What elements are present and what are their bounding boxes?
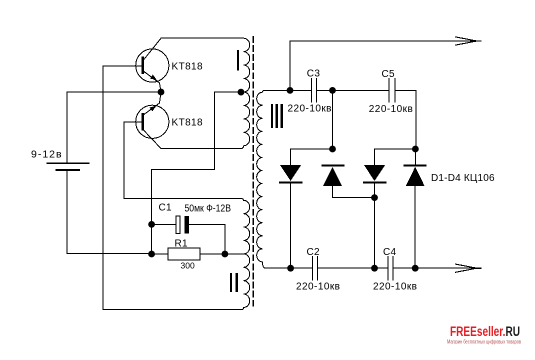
diode D4 КЦ106	[405, 149, 426, 268]
watermark FREEseller.RU logo	[447, 324, 521, 346]
svg-text:220-10кв: 220-10кв	[369, 104, 413, 115]
node A junction D1 anode / D2 cathode	[329, 146, 336, 153]
node R1 right / C1 right / winding II tap junction	[222, 251, 229, 258]
svg-text:C1: C1	[159, 203, 173, 214]
diode D2 КЦ106	[322, 165, 374, 197]
svg-text:FREEseller.RU: FREEseller.RU	[450, 324, 520, 339]
capacitor C2 220-10кв	[313, 257, 388, 281]
wire node B to D3	[375, 149, 416, 165]
svg-text:D1-D4 КЦ106: D1-D4 КЦ106	[431, 173, 495, 184]
transistor Q1 KT818	[136, 38, 169, 91]
terminal top output arrow	[456, 37, 482, 45]
capacitor C3 220-10кв	[290, 79, 332, 103]
svg-text:220-10кв: 220-10кв	[288, 104, 332, 115]
wire top output rail	[290, 41, 477, 90]
svg-text:C4: C4	[383, 247, 397, 258]
node C1 left junction	[148, 221, 155, 228]
svg-text:R1: R1	[175, 238, 189, 249]
node B junction D3 anode / D4 cathode	[412, 146, 419, 153]
svg-text:Магазин бесплатных цифровых то: Магазин бесплатных цифровых товаров	[447, 339, 521, 345]
capacitor C4 220-10кв	[388, 257, 477, 281]
node D2 anode / D3 cathode junction	[371, 194, 378, 201]
svg-text:C2: C2	[307, 247, 321, 258]
node D3 line on bottom rail	[371, 265, 378, 272]
node R1 left junction	[148, 251, 155, 258]
svg-text:50мк Ф-12В: 50мк Ф-12В	[185, 203, 232, 214]
node emitter junction	[158, 89, 165, 96]
svg-text:9-12в: 9-12в	[31, 148, 63, 160]
svg-text:220-10кв: 220-10кв	[296, 282, 340, 293]
transformer T1 winding III (HV secondary) with top lead	[257, 90, 312, 268]
capacitor C1 50мк Ф-12В	[152, 216, 226, 254]
svg-text:300: 300	[181, 260, 195, 270]
diode D3 КЦ106	[364, 165, 385, 268]
node C3 right junction	[329, 87, 336, 94]
node winding I tap junction	[238, 89, 245, 96]
wire battery negative to R1 left node	[67, 171, 151, 254]
wire Q1 base wire	[103, 65, 141, 67]
svg-text:KT818: KT818	[172, 117, 204, 128]
transformer T1 core	[252, 37, 254, 306]
battery GB1 9-12в	[47, 163, 89, 170]
label winding numeral II	[230, 273, 238, 292]
wire emitter node to battery positive	[67, 92, 161, 163]
svg-text:C3: C3	[307, 69, 321, 80]
transformer T1 winding II (bottom primary) with feedback wires	[103, 66, 250, 310]
svg-text:KT818: KT818	[172, 62, 204, 73]
node D1 cathode on bottom rail	[287, 265, 294, 272]
wire winding I center tap to C1/R1 branch	[152, 92, 244, 254]
wire Q2 base wire	[124, 121, 141, 123]
transformer T1 winding I (top primary) with collector rail	[161, 38, 250, 148]
wire node A from C3	[332, 90, 334, 149]
node secondary top / C3 left junction	[287, 87, 294, 94]
transistor Q2 KT818	[136, 93, 241, 149]
svg-text:220-10кв: 220-10кв	[373, 281, 417, 292]
node D4 anode on bottom rail	[412, 265, 419, 272]
terminal bottom output arrow	[456, 264, 482, 272]
label winding numeral I	[237, 50, 239, 70]
diode D1 КЦ106	[280, 165, 301, 268]
capacitor C5 220-10кв	[389, 79, 416, 149]
wire node A to D1	[291, 149, 333, 165]
label winding numeral III	[271, 104, 283, 128]
resistor R1 300	[152, 248, 244, 260]
wire C3 to C5	[333, 89, 389, 91]
svg-text:C5: C5	[382, 69, 396, 80]
